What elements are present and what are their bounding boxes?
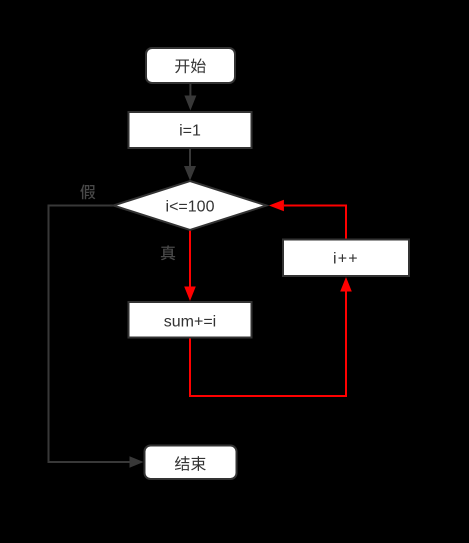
wire: i<=100 真(true) → sum+=i (red arrow)	[184, 230, 196, 301]
wire: i=1 → i<=100 (gray arrow)	[184, 148, 196, 181]
process box sum+=i	[129, 302, 252, 338]
process box i++	[283, 240, 409, 277]
terminator box 开始 (start)	[146, 48, 235, 83]
wire: i<=100 假(false) → 结束 (gray elbow arrow)	[49, 206, 144, 468]
label 假 (false)	[80, 184, 95, 199]
process box i=1	[129, 112, 252, 148]
svg-text:sum+=i: sum+=i	[164, 314, 216, 331]
wire: i++ → i<=100 (red elbow arrow)	[269, 200, 346, 240]
label 真 (true)	[161, 245, 175, 260]
decision diamond i<=100	[114, 181, 267, 230]
wire: 开始 → i=1 (gray arrow)	[184, 83, 196, 111]
svg-text:i=1: i=1	[179, 123, 201, 140]
svg-text:i++: i++	[333, 250, 359, 267]
terminator box 结束 (end)	[145, 446, 237, 480]
svg-text:i<=100: i<=100	[166, 198, 215, 215]
wire: sum+=i → i++ (red elbow arrow)	[190, 277, 352, 396]
